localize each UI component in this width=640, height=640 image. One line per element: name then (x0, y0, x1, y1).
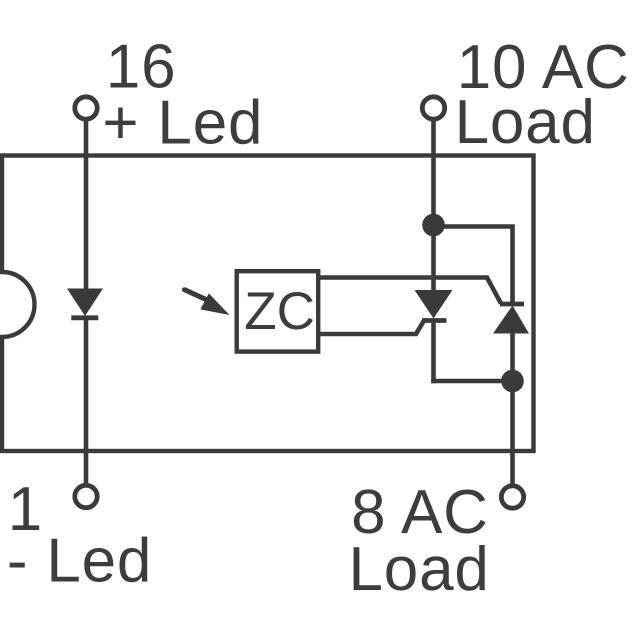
ZC box (237, 271, 319, 351)
SCR T2 triangle (pointing up) (493, 306, 529, 334)
svg-text:+ Led: + Led (102, 89, 263, 158)
pin 16 terminal (75, 97, 97, 119)
wire pin10 down to node A (431, 119, 436, 225)
svg-text:ZC: ZC (244, 282, 315, 341)
SCR T2 cathode bar (500, 302, 524, 307)
node A junction dot (422, 214, 445, 237)
svg-text:- Led: - Led (7, 527, 152, 596)
wire corner to node B (431, 379, 512, 384)
pin 8 terminal (501, 486, 523, 508)
wire ZC bottom output to T1 gate (318, 321, 424, 335)
wire ZC top output to T2 gate (318, 278, 501, 304)
IC body outline (2, 156, 534, 452)
svg-text:Load: Load (349, 535, 490, 604)
IC notch (0, 272, 35, 337)
wire T1 cathode down to corner (431, 321, 436, 384)
wire LED cathode to pin1 (84, 318, 89, 486)
arrow head (LED input arrow) (200, 293, 229, 315)
triac T1 cathode bar (422, 318, 447, 323)
node B junction dot (501, 370, 524, 393)
pin 10 terminal (422, 97, 444, 119)
wire node B down to pin 8 (510, 381, 515, 486)
svg-text:Load: Load (455, 88, 596, 157)
pin 1 terminal (75, 485, 97, 507)
wire node A right and down to T2 cathode (434, 227, 513, 306)
LED D1 cathode bar (71, 315, 98, 320)
triac T1 triangle (pointing down) (415, 290, 453, 319)
wire node A to triac T1 anode (431, 225, 436, 291)
LED D1 triangle (67, 289, 103, 317)
wire pin16 to LED anode (84, 119, 89, 290)
arrow shaft (185, 290, 208, 301)
wire T2 anode down to node B (510, 334, 515, 382)
